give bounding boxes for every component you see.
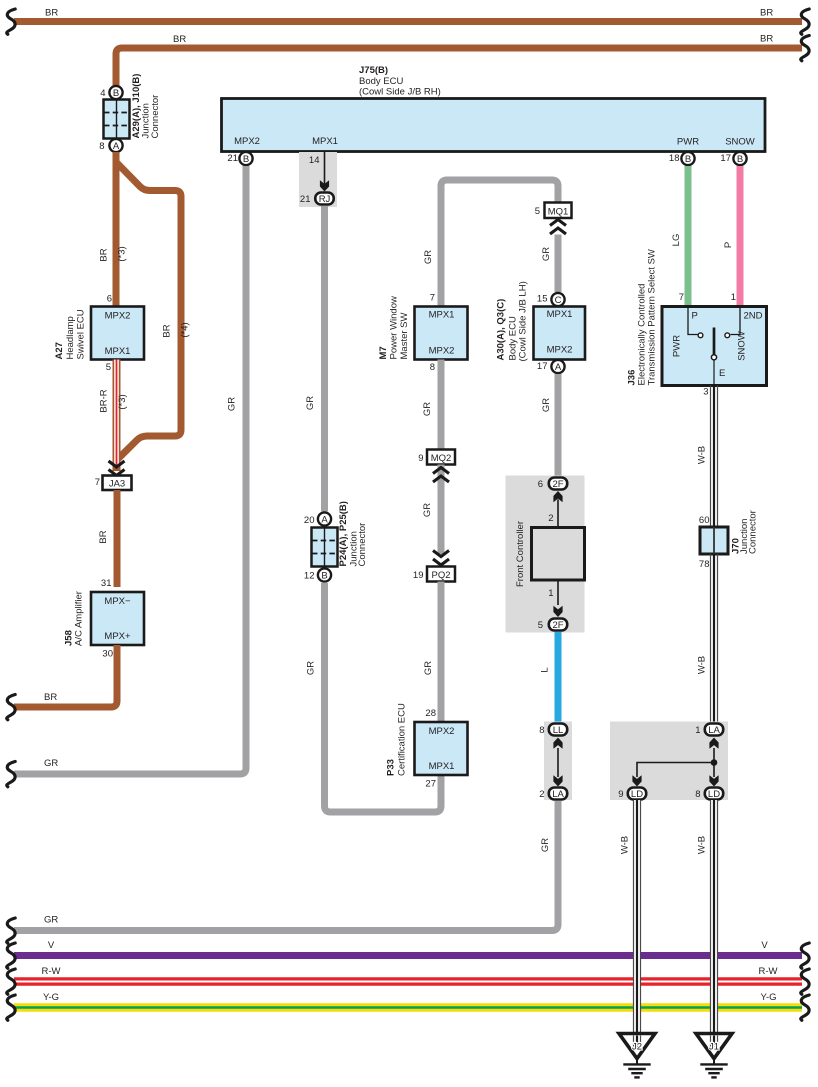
svg-text:60: 60 [699, 515, 710, 526]
male connector arrow into LD 9 [632, 775, 641, 786]
svg-text:2F: 2F [552, 620, 563, 631]
wire LG from J75 18(B) to J36 pin 7 [671, 166, 688, 307]
svg-text:Certification ECU: Certification ECU [397, 703, 408, 776]
svg-text:1: 1 [731, 292, 736, 303]
connector LD pin 9 [618, 788, 646, 801]
wire GR loop from M7 pin 7 to MQ1 [423, 180, 558, 306]
J36 switch lever and pivot [672, 328, 748, 398]
svg-text:LD: LD [631, 789, 643, 800]
ECU J58 A/C Amplifier [64, 591, 145, 646]
svg-text:GR: GR [423, 661, 434, 675]
junction connector JA3 pin 7 [95, 476, 132, 491]
male connector arrows into JA3 [109, 461, 125, 476]
svg-text:GR: GR [306, 661, 317, 675]
svg-text:A: A [321, 514, 328, 525]
svg-text:GR: GR [44, 758, 58, 769]
svg-text:8: 8 [99, 141, 104, 152]
svg-text:V: V [48, 940, 55, 951]
svg-text:19: 19 [413, 570, 424, 581]
svg-text:GR: GR [541, 398, 552, 412]
svg-text:LA: LA [552, 789, 564, 800]
svg-text:GR: GR [422, 503, 433, 517]
svg-text:31: 31 [101, 578, 112, 589]
svg-text:(*3): (*3) [117, 246, 128, 261]
male connector arrow into LA right [709, 738, 718, 749]
wire BR (*3) from A29 to A27 [99, 152, 128, 306]
svg-text:MPX2: MPX2 [429, 346, 455, 357]
svg-text:1: 1 [695, 725, 700, 736]
ECU A30(A), Q3(C) Body ECU (Cowl Side J/B LH) [496, 281, 586, 361]
svg-text:Transmission Pattern Select SW: Transmission Pattern Select SW [647, 249, 658, 385]
junction connector P24 pin 20 circle A [304, 512, 331, 526]
svg-text:7: 7 [95, 477, 100, 488]
svg-text:RJ: RJ [319, 194, 331, 205]
wire from node to LD pin 8 [713, 763, 715, 778]
svg-text:W-B: W-B [697, 446, 708, 464]
A30 pin 15 circle C [537, 293, 565, 306]
svg-text:8: 8 [430, 362, 435, 373]
svg-text:21: 21 [300, 194, 311, 205]
male connector arrow into LD 8 [709, 775, 718, 786]
wire GR from RJ to P24 [305, 206, 325, 512]
SW M7 Power Window Master SW [378, 293, 468, 374]
connector MQ1 pin 5 [535, 203, 572, 219]
svg-text:(Cowl Side J/B LH): (Cowl Side J/B LH) [518, 281, 529, 361]
svg-text:SNOW: SNOW [725, 137, 755, 148]
svg-text:BR: BR [173, 34, 186, 45]
shade behind LL LA connectors [544, 722, 572, 801]
pin 28 of P33 [425, 708, 436, 719]
ECU A27 Headlamp Swivel ECU [54, 307, 144, 360]
svg-text:Swivel ECU: Swivel ECU [76, 309, 87, 359]
A30 pin 17 circle A [537, 360, 565, 373]
break symbol left of V bus [7, 943, 15, 968]
break symbol right of BR bus top [801, 9, 809, 34]
male connector arrows into MQ1 [550, 220, 566, 235]
svg-text:P24(A), P25(B): P24(A), P25(B) [338, 501, 349, 566]
svg-text:B: B [113, 88, 119, 99]
break symbol right of BR bus second [801, 36, 809, 61]
svg-text:Connector: Connector [748, 510, 759, 554]
J75 pin 17 circle B [720, 152, 746, 165]
pin 5 of A27 [106, 362, 111, 373]
shade behind LA LD connectors [610, 722, 728, 801]
break symbol left of BR bottom [7, 695, 15, 720]
J36 internal contact P side [688, 307, 703, 338]
svg-text:Connector: Connector [150, 95, 161, 139]
shade behind Front Controller [506, 476, 585, 633]
svg-text:17: 17 [537, 361, 548, 372]
svg-text:W-B: W-B [697, 656, 708, 674]
wire GR from LA to break [14, 801, 558, 931]
ECU J75(B) Body ECU (Cowl Side J/B RH) [222, 65, 766, 152]
J75 pin 14 lead [309, 152, 325, 184]
connector 2F pin 5 [538, 619, 567, 632]
svg-text:PWR: PWR [677, 137, 699, 148]
svg-text:(Cowl Side J/B RH): (Cowl Side J/B RH) [359, 87, 441, 98]
wire BR (*4) branch [116, 162, 191, 459]
wire GR MQ2 to PQ2 [422, 465, 441, 555]
svg-text:14: 14 [309, 155, 320, 166]
svg-text:MPX2: MPX2 [429, 726, 455, 737]
pin 6 of A27 [107, 294, 112, 305]
wire W-B from J70 to LA [697, 554, 718, 723]
svg-text:MPX2: MPX2 [547, 345, 573, 356]
connector RJ pin 21 [300, 193, 334, 206]
svg-text:Front Controller: Front Controller [515, 521, 526, 587]
break symbol right of Y-G bus [801, 995, 809, 1020]
wire BR-R (*3) from A27 pin 5 [99, 360, 129, 472]
svg-text:P33: P33 [386, 759, 397, 776]
pin 27 of P33 [425, 779, 436, 790]
svg-text:Headlamp: Headlamp [65, 316, 76, 359]
svg-text:J1: J1 [709, 1042, 719, 1053]
J36 internal contact 2ND side [725, 307, 763, 338]
svg-text:A: A [555, 362, 562, 373]
svg-text:9: 9 [618, 789, 623, 800]
svg-text:P: P [723, 242, 734, 248]
svg-text:A30(A), Q3(C): A30(A), Q3(C) [496, 299, 507, 361]
svg-text:MPX1: MPX1 [105, 346, 131, 357]
svg-text:E: E [719, 368, 725, 379]
svg-text:B: B [685, 154, 691, 165]
svg-text:78: 78 [699, 559, 710, 570]
male connector arrow into LA [553, 775, 562, 786]
pin 30 of J58 [102, 649, 113, 660]
lead from Front Controller pin 2 [548, 500, 558, 528]
lead from Front Controller pin 1 [548, 580, 558, 605]
svg-text:BR: BR [162, 324, 173, 337]
junction connector A29 pin 8 circle A [99, 139, 122, 152]
svg-text:9: 9 [418, 453, 423, 464]
wire branch to LD pin 9 [637, 763, 714, 778]
svg-text:MPX2: MPX2 [105, 311, 131, 322]
svg-text:PQ2: PQ2 [431, 570, 450, 581]
svg-text:GR: GR [305, 396, 316, 410]
svg-text:P: P [692, 311, 698, 322]
svg-text:V: V [761, 940, 768, 951]
svg-text:C: C [555, 295, 562, 306]
svg-text:21: 21 [227, 153, 238, 164]
wire BR bus second [116, 34, 802, 88]
svg-text:BR: BR [760, 8, 773, 19]
break symbol left of Y-G bus [7, 995, 15, 1020]
svg-text:MPX1: MPX1 [429, 761, 455, 772]
shade behind RJ connector [299, 152, 337, 207]
svg-text:GR: GR [540, 838, 551, 852]
svg-text:BR: BR [44, 692, 57, 703]
svg-text:18: 18 [669, 153, 680, 164]
break symbol right of R-W bus [801, 969, 809, 994]
wire V bus [14, 940, 802, 956]
wire BR from J58 pin 30 to break [14, 645, 117, 707]
svg-text:GR: GR [422, 402, 433, 416]
male connector arrow into 2F top [553, 491, 562, 502]
svg-text:7: 7 [430, 293, 435, 304]
svg-text:27: 27 [425, 779, 436, 790]
svg-text:BR: BR [760, 34, 773, 45]
wire BR from JA3 to J58 [98, 490, 117, 587]
ground J1 [696, 1034, 732, 1078]
svg-text:6: 6 [538, 479, 543, 490]
break symbol left of BR bus top [7, 9, 15, 34]
svg-text:LD: LD [708, 789, 720, 800]
break symbol left of R-W bus [7, 969, 15, 994]
svg-text:M7: M7 [378, 346, 389, 359]
svg-text:MPX1: MPX1 [312, 136, 338, 147]
wire between LL and LA [557, 748, 559, 777]
svg-text:MQ2: MQ2 [431, 453, 452, 464]
connector PQ2 pin 19 [413, 567, 455, 582]
wire Y-G bus [14, 992, 802, 1008]
svg-text:LG: LG [671, 234, 682, 247]
wire GR from M7 pin 8 to MQ2 [422, 360, 441, 450]
svg-text:20: 20 [304, 515, 315, 526]
wire W-B from LD 8 to ground J1 [697, 800, 718, 1034]
male connector arrow into 2F bottom [553, 606, 562, 617]
svg-text:A: A [113, 141, 120, 152]
svg-text:SNOW: SNOW [737, 331, 748, 361]
svg-text:BR: BR [99, 248, 110, 261]
svg-text:B: B [737, 154, 743, 165]
wire BR bus top [14, 8, 802, 22]
wire L from 2F to LL [540, 632, 559, 723]
wire GR from P24 12(B) to P33 pin 27 [306, 583, 442, 812]
svg-text:2: 2 [539, 789, 544, 800]
svg-text:A27: A27 [54, 342, 65, 359]
svg-text:28: 28 [425, 708, 436, 719]
wire from LA to junction node [713, 748, 715, 763]
svg-text:LA: LA [708, 725, 720, 736]
svg-text:Y-G: Y-G [43, 992, 59, 1003]
svg-text:J75(B): J75(B) [359, 65, 388, 76]
connector LA pin 2 [539, 788, 567, 801]
svg-text:BR: BR [98, 530, 109, 543]
svg-text:BR-R: BR-R [99, 389, 110, 412]
svg-text:GR: GR [423, 250, 434, 264]
svg-text:(*4): (*4) [180, 322, 191, 337]
male connector arrow into LL [553, 738, 562, 749]
svg-text:MPX1: MPX1 [429, 310, 455, 321]
svg-text:17: 17 [720, 153, 731, 164]
wire W-B from LD 9 to ground J2 [620, 800, 641, 1034]
svg-text:4: 4 [100, 88, 105, 99]
svg-text:MQ1: MQ1 [548, 207, 569, 218]
connector LA pin 1 [695, 724, 723, 737]
svg-text:5: 5 [106, 362, 111, 373]
svg-text:MPX2: MPX2 [234, 136, 260, 147]
svg-text:PWR: PWR [672, 335, 683, 357]
svg-text:Y-G: Y-G [760, 992, 776, 1003]
connector 2F pin 6 [538, 478, 567, 491]
junction connector P24 pin 12 circle B [304, 568, 331, 581]
svg-text:L: L [540, 667, 551, 672]
svg-text:MPX−: MPX− [104, 596, 131, 607]
male connector arrows out of MQ2 [433, 468, 449, 483]
ground J2 [619, 1034, 655, 1078]
wire GR MQ1 to A30 15(C) [555, 235, 562, 293]
svg-text:Power Window: Power Window [389, 296, 400, 359]
svg-text:MPX1: MPX1 [547, 309, 573, 320]
junction connector J70 [699, 510, 759, 570]
break symbol right of V bus [801, 943, 809, 968]
svg-text:Body ECU: Body ECU [359, 76, 403, 87]
wire P from J75 17(B) to J36 pin 1 [723, 166, 740, 307]
svg-text:BR: BR [45, 8, 58, 19]
SW J36 Electronically Controlled Transmission Pattern Select SW [627, 249, 767, 385]
connector MQ2 pin 9 [418, 450, 455, 465]
svg-text:B: B [321, 570, 327, 581]
junction node [711, 759, 718, 766]
J75 pin 18 circle B [669, 152, 695, 165]
svg-text:15: 15 [537, 294, 548, 305]
svg-text:J2: J2 [632, 1042, 642, 1053]
break symbol left of GR [7, 762, 15, 787]
svg-text:2F: 2F [552, 479, 563, 490]
svg-text:6: 6 [107, 294, 112, 305]
svg-text:MPX+: MPX+ [104, 631, 131, 642]
svg-text:GR: GR [227, 397, 238, 411]
svg-text:1: 1 [548, 588, 553, 599]
Front Controller [515, 521, 585, 587]
break symbol left of GR bus [7, 918, 15, 943]
svg-text:(*3): (*3) [117, 394, 128, 409]
svg-text:5: 5 [538, 620, 543, 631]
svg-text:W-B: W-B [697, 836, 708, 854]
svg-text:12: 12 [304, 571, 315, 582]
svg-text:5: 5 [535, 206, 540, 217]
svg-text:30: 30 [102, 649, 113, 660]
male connector arrow into RJ [320, 180, 329, 191]
svg-text:8: 8 [539, 725, 544, 736]
svg-text:JA3: JA3 [109, 479, 125, 490]
connector LD pin 8 [695, 788, 723, 801]
wire GR from A30 17(A) to 2F [541, 374, 558, 478]
male connector arrows into PQ2 [433, 551, 449, 566]
J75 pin 21 circle B [227, 152, 252, 165]
connector LL pin 8 [539, 724, 567, 737]
wire GR from J75 21(B) to break [14, 166, 246, 774]
svg-text:R-W: R-W [759, 966, 778, 977]
svg-text:LL: LL [553, 725, 564, 736]
svg-text:B: B [243, 154, 249, 165]
svg-text:7: 7 [679, 292, 684, 303]
svg-text:2: 2 [548, 513, 553, 524]
wire GR from PQ2 to P33 pin 28 [423, 582, 441, 723]
svg-text:Connector: Connector [357, 523, 368, 567]
svg-text:R-W: R-W [42, 966, 61, 977]
svg-text:GR: GR [44, 915, 58, 926]
svg-text:Master SW: Master SW [399, 312, 410, 359]
svg-text:2ND: 2ND [744, 311, 763, 322]
junction connector A29(A), J10(B) [104, 74, 162, 139]
svg-text:8: 8 [695, 789, 700, 800]
wire W-B from J36 pin 3 to J70 [697, 386, 718, 528]
wire R-W bus [14, 966, 802, 982]
junction connector P24(A), P25(B) [312, 501, 369, 566]
svg-text:A/C Amplifier: A/C Amplifier [74, 591, 85, 646]
svg-text:3: 3 [703, 387, 708, 398]
junction connector A29(A) J10(B) pin 4 circle B [100, 86, 122, 99]
svg-text:GR: GR [541, 247, 552, 261]
pin 31 of J58 [101, 578, 112, 589]
svg-text:W-B: W-B [620, 836, 631, 854]
ECU P33 Certification ECU [386, 703, 468, 776]
